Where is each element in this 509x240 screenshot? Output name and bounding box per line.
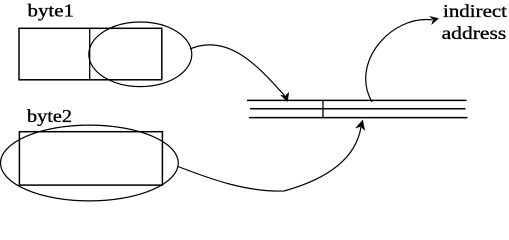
wire memory word to indirect address label [366, 19, 432, 102]
memory word top line [247, 99, 467, 101]
byte1 nibble divider [89, 28, 91, 80]
memory word middle line [250, 108, 466, 110]
arrowhead to indirect address [429, 16, 439, 25]
ellipse around byte2 [1, 125, 179, 201]
wire byte2 to memory word [178, 127, 361, 191]
memory word divider [322, 100, 324, 117]
svg-text:byte1: byte1 [28, 1, 75, 21]
ellipse around byte1 low nibble [89, 22, 192, 87]
svg-text:address: address [442, 23, 507, 43]
arrowhead into memory word top [280, 92, 289, 102]
svg-text:indirect: indirect [443, 1, 507, 21]
register byte2 [19, 132, 162, 185]
memory word bottom line [249, 117, 468, 119]
wire byte1 nibble to memory word [190, 45, 285, 96]
register byte1 [19, 28, 162, 80]
arrowhead up into memory word bottom [355, 120, 365, 131]
svg-text:byte2: byte2 [27, 106, 72, 126]
